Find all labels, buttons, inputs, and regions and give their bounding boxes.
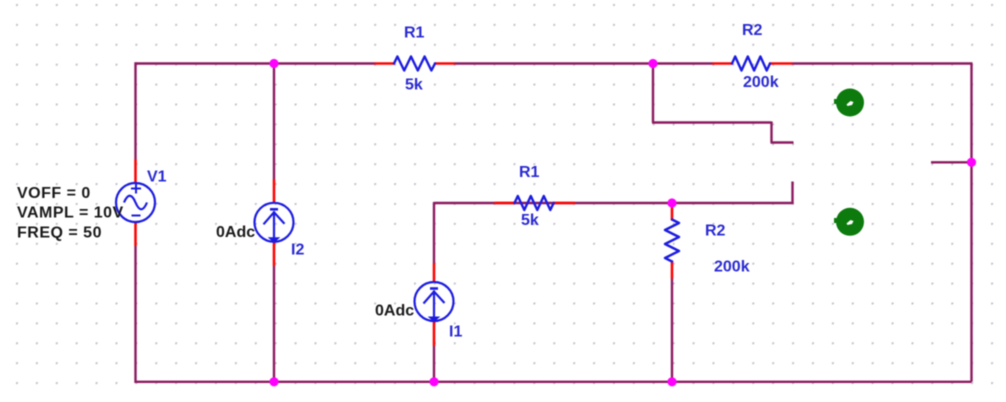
- junction node: top wire / I2 branch: [269, 59, 278, 68]
- svg-text:200k: 200k: [743, 74, 779, 91]
- svg-text:FREQ = 50: FREQ = 50: [17, 225, 102, 242]
- wire: right T stub going left from right rail: [931, 161, 972, 163]
- svg-text:5k: 5k: [521, 212, 539, 229]
- svg-text:0Adc: 0Adc: [216, 224, 255, 241]
- wire: top horizontal left segment (left rail to R1 top): [136, 62, 376, 64]
- junction node: bottom wire / I1 branch: [429, 377, 438, 386]
- wire: mid R2 branch lower vertical to bottom rail: [671, 278, 673, 382]
- svg-text:I2: I2: [291, 242, 304, 259]
- wire: middle left vertical (corner down to I1): [433, 202, 435, 263]
- svg-text:200k: 200k: [714, 259, 750, 276]
- wire: top horizontal right segment (R2 to right rail corner): [792, 62, 973, 64]
- wire: left vertical rail upper (top wire down to V1): [134, 62, 136, 159]
- resistor R1 (middle, 5k): [496, 196, 575, 210]
- wire: upper staircase end stub: [771, 141, 794, 143]
- junction node: right rail / T stub: [967, 158, 976, 167]
- wire: I1 lower vertical to bottom rail: [433, 346, 435, 382]
- svg-text:V1: V1: [147, 169, 167, 186]
- svg-text:R2: R2: [742, 22, 763, 39]
- svg-text:VOFF = 0: VOFF = 0: [17, 185, 91, 202]
- wire: I2 branch upper (top wire down to I2): [273, 64, 275, 180]
- svg-text:R1: R1: [519, 164, 540, 181]
- marker: green probe dot (lower): [834, 208, 864, 236]
- resistor R1 (top, 5k): [376, 57, 454, 71]
- resistor R2 (middle vertical, 200k): [665, 203, 679, 278]
- wire: upper staircase horizontal: [652, 121, 772, 123]
- wire: upper staircase vertical from top node: [652, 64, 654, 123]
- junction node: middle wire / mid R2 branch: [667, 198, 676, 207]
- wire: middle horizontal (I1 corner to R1 mid to right stub): [434, 202, 793, 204]
- wire: upper staircase short vertical: [770, 122, 772, 143]
- marker: green probe dot (upper): [834, 89, 864, 117]
- svg-text:R1: R1: [404, 25, 425, 42]
- junction node: top wire / staircase: [648, 59, 657, 68]
- wire: left vertical rail lower (V1 down to bottom wire): [134, 246, 136, 383]
- wire: bottom horizontal rail: [136, 381, 972, 383]
- svg-text:I1: I1: [449, 324, 462, 341]
- wire: middle right stub going up: [791, 182, 793, 205]
- junction node: bottom wire / I2 branch: [269, 377, 278, 386]
- svg-text:0Adc: 0Adc: [375, 303, 414, 320]
- junction node: bottom wire / mid R2 branch: [667, 377, 676, 386]
- svg-text:5k: 5k: [405, 77, 423, 94]
- voltage source V1 (VSIN): [116, 159, 155, 246]
- resistor R2 (top, 200k): [714, 57, 792, 71]
- svg-text:R2: R2: [705, 223, 726, 240]
- current source I1 (IDC): [415, 263, 454, 346]
- wire: top horizontal middle segment (R1 to R2 through node): [454, 62, 714, 64]
- wire: I2 branch lower (I2 down to bottom wire): [273, 266, 275, 382]
- svg-text:VAMPL = 10V: VAMPL = 10V: [17, 205, 124, 222]
- wire: right vertical rail: [970, 64, 972, 382]
- current source I2 (IDC): [255, 179, 294, 266]
